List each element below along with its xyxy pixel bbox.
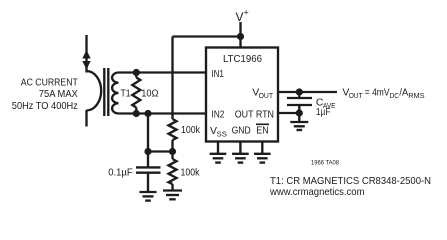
svg-text:EN: EN <box>256 124 268 136</box>
ground below 100k lower <box>163 189 182 191</box>
node IN2 branch junction <box>144 110 151 117</box>
svg-text:0.1µF: 0.1µF <box>108 166 133 178</box>
svg-text:/A: /A <box>399 86 408 98</box>
wire IN2 branch down <box>147 114 149 167</box>
svg-text:100k: 100k <box>181 124 201 136</box>
svg-text:OUT: OUT <box>349 91 363 100</box>
svg-text:OUT RTN: OUT RTN <box>235 109 274 121</box>
wire OUT RTN <box>278 112 299 114</box>
svg-text:75A MAX: 75A MAX <box>39 88 78 100</box>
svg-text:DC: DC <box>390 91 400 100</box>
resistor R 10ohm top lead <box>135 73 137 78</box>
wire primary bottom segment <box>85 110 87 127</box>
wire V+ stub <box>239 22 241 48</box>
resistor R 10ohm zigzag <box>132 78 140 108</box>
wire mid node horizontal <box>148 150 173 152</box>
transformer T1 primary loop <box>87 71 102 111</box>
ground below VSS <box>210 153 227 155</box>
node 10ohm bottom junction <box>133 110 140 117</box>
svg-text:RMS: RMS <box>408 91 424 100</box>
wire 100k upper to mid node <box>171 140 173 152</box>
ground below GND <box>232 153 249 155</box>
svg-text:SS: SS <box>217 129 228 138</box>
capacitor CAVE top plate <box>287 97 312 99</box>
svg-text:OUT: OUT <box>259 91 274 100</box>
svg-text:10Ω: 10Ω <box>141 87 158 99</box>
wire V+ rail <box>173 35 241 37</box>
svg-text:AC CURRENT: AC CURRENT <box>21 76 78 88</box>
wire secondary bottom to IN2 <box>119 112 207 114</box>
transformer T1 secondary winding <box>112 73 118 114</box>
wire CAVE bottom to OUT RTN and ground <box>298 106 300 122</box>
resistor R 100k lower zigzag <box>169 159 177 184</box>
ground below OUT RTN <box>290 121 308 123</box>
svg-text:www.crmagnetics.com: www.crmagnetics.com <box>269 186 365 198</box>
resistor R 10ohm bottom lead <box>135 108 137 114</box>
wire V+ rail drop to divider <box>171 37 173 120</box>
capacitor C 0.1uF bottom plate <box>136 172 161 174</box>
wire primary top segment <box>85 35 87 73</box>
svg-text:T1: T1 <box>121 87 131 99</box>
node divider mid left junction <box>144 148 151 155</box>
svg-text:V: V <box>236 10 244 24</box>
pin GND stub <box>239 142 241 154</box>
svg-text:100k: 100k <box>181 166 201 178</box>
resistor R 100k upper zigzag <box>169 119 177 140</box>
svg-text:= 4mV: = 4mV <box>365 86 390 98</box>
ground below 0.1uF <box>140 191 157 193</box>
node V+ junction <box>237 33 244 40</box>
transformer T1 core bar right <box>107 68 109 116</box>
capacitor C 0.1uF top plate <box>136 166 161 168</box>
transformer T1 core bar left <box>103 68 105 116</box>
primary AC current arrow down <box>82 61 90 70</box>
wire 100k lower to ground <box>171 184 173 191</box>
pin VSS stub <box>217 142 219 154</box>
capacitor CAVE bottom plate <box>287 104 312 106</box>
svg-text:IN1: IN1 <box>211 68 224 80</box>
svg-text:50Hz TO 400Hz: 50Hz TO 400Hz <box>12 100 78 112</box>
svg-text:1µF: 1µF <box>316 106 331 118</box>
svg-text:1966 TA08: 1966 TA08 <box>311 160 339 167</box>
node 10ohm top junction <box>133 69 140 76</box>
resistor R 100k lower lead top <box>171 152 173 160</box>
wire 0.1uF to ground <box>147 174 149 193</box>
svg-text:LTC1966: LTC1966 <box>223 53 262 65</box>
wire VOUT to CAVE <box>298 92 300 97</box>
op-amp U1 LTC1966 box <box>206 48 278 142</box>
wire VOUT output <box>278 91 337 93</box>
svg-text:+: + <box>244 8 249 18</box>
ground below EN <box>254 153 271 155</box>
primary AC current arrow up <box>82 50 90 59</box>
svg-text:IN2: IN2 <box>211 109 224 121</box>
EN overline <box>256 123 269 125</box>
wire secondary top to IN1 <box>119 71 207 73</box>
svg-text:GND: GND <box>232 124 252 136</box>
node VOUT junction <box>296 88 303 95</box>
pin EN stub <box>261 142 263 154</box>
node divider mid right junction <box>169 148 176 155</box>
node OUT RTN junction <box>296 109 303 116</box>
